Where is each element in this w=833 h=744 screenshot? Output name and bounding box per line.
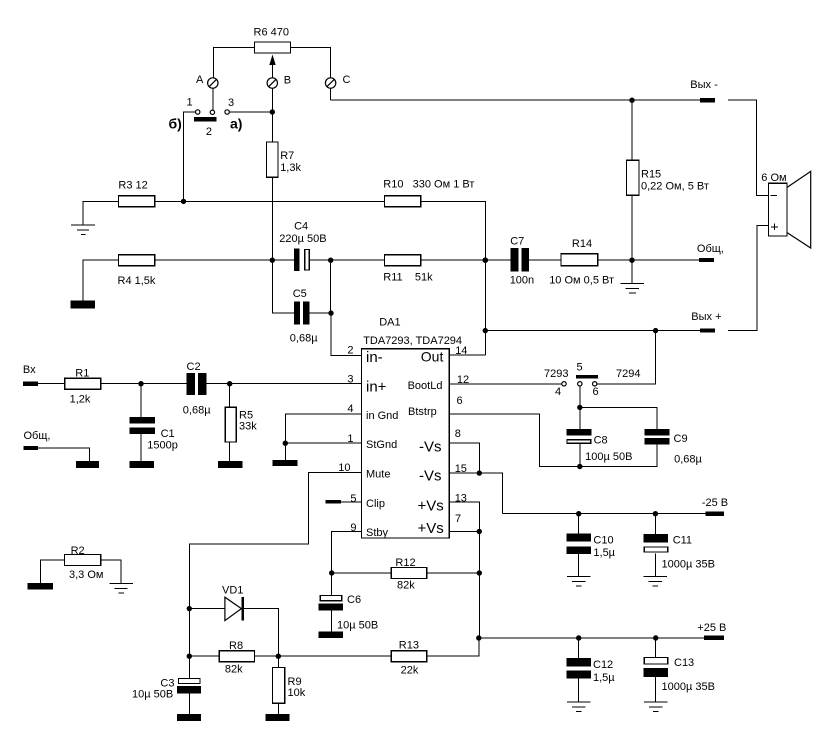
svg-text:0,68µ: 0,68µ: [290, 333, 318, 345]
node C11 top: [653, 511, 658, 516]
svg-text:Общ,: Общ,: [697, 243, 724, 255]
terminal Vyh+: [691, 311, 721, 333]
svg-text:C11: C11: [673, 535, 692, 547]
wire R12 right: [427, 572, 480, 574]
svg-text:in Gnd: in Gnd: [366, 410, 398, 422]
svg-text:R6 470: R6 470: [254, 27, 289, 39]
ground bar under R9: [266, 714, 290, 721]
svg-text:6: 6: [593, 386, 599, 398]
capacitor C9: [644, 429, 702, 465]
svg-text:0,68µ: 0,68µ: [183, 405, 211, 417]
node R8 left: [187, 654, 192, 659]
wire pin12 BootLd: [449, 383, 561, 385]
node C8 top: [577, 405, 582, 410]
svg-text:A: A: [196, 74, 204, 86]
svg-text:Stby: Stby: [366, 527, 389, 539]
svg-text:10µ 50В: 10µ 50В: [337, 619, 378, 631]
svg-text:R13: R13: [399, 640, 419, 652]
svg-text:R14: R14: [572, 238, 592, 250]
wire pin10 Mute: [189, 473, 361, 678]
wire R8 to R13: [255, 655, 392, 657]
svg-text:10: 10: [338, 462, 350, 474]
capacitor C6: [319, 573, 379, 631]
wire contact 3 to node under B: [229, 111, 272, 113]
ground earth under C13: [644, 702, 668, 712]
ground bar under R5: [218, 461, 242, 468]
diode VD1: [189, 585, 244, 621]
svg-text:-Vs: -Vs: [419, 468, 442, 485]
wire Vyh+ line: [485, 330, 700, 332]
wire pin7: [449, 531, 479, 533]
wire pin14 Out: [449, 354, 485, 356]
ground earth under R3: [71, 225, 95, 235]
wire Obsh to ground: [38, 448, 90, 461]
wire contact 1 down to R3 node: [184, 112, 196, 201]
node C8 bottom: [577, 464, 582, 469]
capacitor C10: [567, 514, 616, 577]
svg-text:+25 В: +25 В: [697, 622, 726, 634]
wire pin8: [449, 443, 479, 473]
resistor R10: [383, 179, 474, 207]
wire pin15: [449, 473, 502, 514]
label b): [169, 116, 182, 132]
wire R4 left lead: [83, 260, 118, 300]
wire pin3 row crossing none: [0, 0, 1, 1]
jumper contact 6: [593, 382, 599, 398]
svg-text:a): a): [230, 116, 242, 132]
op-amp IC DA1 TDA7293/TDA7294: [362, 317, 463, 538]
svg-text:Clip: Clip: [366, 498, 385, 510]
svg-text:0,22 Ом, 5 Вт: 0,22 Ом, 5 Вт: [641, 180, 709, 192]
capacitor C5: [290, 288, 318, 344]
wire C1 bottom lead: [140, 434, 142, 461]
resistor R2: [65, 545, 104, 581]
ground earth under C11: [644, 576, 668, 586]
svg-text:R11 51k: R11 51k: [383, 271, 433, 283]
wire terminal B down to R7: [271, 88, 273, 142]
node C2 R5: [227, 381, 232, 386]
wire +25V rail: [479, 637, 704, 639]
svg-text:C: C: [343, 74, 351, 86]
svg-text:7294: 7294: [616, 368, 640, 380]
wire R13 right up to +25V rail: [427, 638, 479, 656]
DA1 inner pin names right: [408, 348, 444, 537]
ground bar under Obsh: [76, 461, 99, 468]
svg-text:BootLd: BootLd: [408, 380, 443, 392]
wire C8 node to C9 top: [580, 407, 657, 429]
node pin4 pin1: [283, 441, 288, 446]
jumper contact 3: [225, 97, 234, 114]
svg-text:1,5µ: 1,5µ: [593, 672, 615, 684]
svg-text:22k: 22k: [401, 665, 419, 677]
resistor R13: [391, 640, 427, 677]
svg-text:R12: R12: [395, 557, 415, 569]
svg-text:R3 12: R3 12: [118, 179, 147, 191]
svg-text:R15: R15: [641, 169, 661, 181]
svg-text:in-: in-: [366, 349, 383, 366]
ground bar under R4: [71, 301, 95, 309]
svg-text:10k: 10k: [288, 687, 306, 699]
svg-text:C5: C5: [293, 288, 307, 300]
svg-text:6: 6: [457, 395, 463, 407]
svg-text:VD1: VD1: [222, 585, 243, 597]
svg-text:5: 5: [350, 493, 356, 505]
wire R10 right to output vertical: [421, 201, 486, 355]
jumper contact 1: [187, 96, 200, 114]
wire Vyh- to speaker minus: [728, 100, 769, 195]
wire -25V rail: [503, 513, 706, 515]
svg-text:Общ,: Общ,: [24, 430, 51, 442]
R6 wiper arrow: [269, 55, 275, 79]
terminal Vx input: [23, 364, 38, 386]
node output R11: [483, 258, 488, 263]
DA1 inner pin names left: [366, 349, 398, 539]
svg-text:C8: C8: [594, 435, 608, 447]
ground earth under R14 node: [621, 260, 645, 293]
wire VD1 cathode down to R8: [244, 609, 278, 657]
node pin8 pin15: [477, 470, 482, 475]
svg-text:82k: 82k: [397, 580, 415, 592]
svg-text:1000µ 35В: 1000µ 35В: [662, 558, 715, 570]
wire R8 left: [189, 655, 219, 657]
svg-text:Mute: Mute: [366, 469, 390, 481]
svg-text:R2: R2: [71, 545, 85, 557]
svg-text:2: 2: [206, 126, 212, 138]
terminal B: [267, 74, 291, 88]
wire R2 left to ground: [40, 560, 64, 583]
wire R12 row: [332, 572, 392, 574]
resistor R12: [391, 557, 427, 592]
svg-text:+Vs: +Vs: [418, 520, 444, 537]
svg-text:2: 2: [347, 344, 353, 356]
terminal -25V: [702, 497, 728, 516]
resistor R3: [118, 179, 154, 207]
svg-text:1000µ 35В: 1000µ 35В: [662, 681, 715, 693]
terminal A: [196, 74, 218, 88]
capacitor C2: [183, 361, 211, 417]
node C10 top: [576, 511, 581, 516]
svg-text:1500p: 1500p: [147, 440, 178, 452]
wire C8 bottom: [579, 444, 581, 467]
svg-text:100n: 100n: [510, 274, 534, 286]
node pin13 pin7: [477, 529, 482, 534]
wire R14 to Obsh terminal: [598, 259, 699, 261]
svg-text:C7: C7: [510, 236, 524, 248]
svg-text:220µ 50В: 220µ 50В: [279, 233, 326, 245]
resistor R5: [225, 407, 257, 442]
svg-text:1: 1: [187, 96, 193, 108]
svg-text:C13: C13: [674, 657, 694, 669]
ground earth under R2 right: [110, 584, 134, 594]
node C13 top: [653, 635, 658, 640]
wire Vx to R1: [38, 383, 65, 385]
wire R3 to R10: [155, 200, 385, 202]
svg-text:4: 4: [555, 386, 561, 398]
node +25V R13: [476, 635, 481, 640]
node C4 right: [328, 258, 333, 263]
svg-text:10 Ом 0,5 Вт: 10 Ом 0,5 Вт: [549, 274, 614, 286]
wire terminal A to contact 2: [212, 88, 214, 110]
wire R5 bottom lead: [229, 442, 231, 461]
terminal Obsh right: [697, 243, 724, 262]
wire R6 right lead to terminal C: [291, 48, 331, 101]
terminal Obsh left: [24, 430, 51, 450]
wire pin7 down to +25V rail: [478, 532, 480, 639]
svg-text:8: 8: [455, 428, 461, 440]
node VD1 anode: [187, 606, 192, 611]
svg-text:Btstrp: Btstrp: [408, 406, 437, 418]
node out R11 crossing: [483, 258, 488, 263]
jumper contact 5: [577, 362, 583, 386]
node R14 R15: [629, 258, 634, 263]
svg-text:4: 4: [347, 403, 353, 415]
svg-text:TDA7293, TDA7294: TDA7293, TDA7294: [363, 335, 462, 347]
wire R1 to C2: [101, 383, 187, 385]
svg-text:C6: C6: [347, 594, 361, 606]
DA1 pin numbers left: [338, 344, 356, 534]
svg-text:C3: C3: [160, 677, 174, 689]
svg-text:1,3k: 1,3k: [280, 162, 301, 174]
svg-text:Вх: Вх: [23, 364, 36, 376]
svg-text:R10 330 Ом 1 Вт: R10 330 Ом 1 Вт: [383, 179, 474, 191]
svg-text:3: 3: [228, 97, 234, 109]
svg-text:7293: 7293: [544, 368, 568, 380]
resistor R9: [273, 656, 306, 714]
svg-text:C12: C12: [593, 659, 613, 671]
capacitor C13: [644, 638, 715, 702]
wire R5 top lead: [229, 384, 231, 408]
ground bar under C1: [130, 461, 155, 468]
node under B: [270, 109, 275, 114]
svg-text:7: 7: [455, 513, 461, 525]
svg-text:1,5µ: 1,5µ: [593, 547, 615, 559]
node R1 C1: [138, 381, 143, 386]
ground bar under C3: [177, 714, 201, 721]
svg-text:100µ 50B: 100µ 50B: [585, 451, 632, 463]
node Vyh+ jumper: [653, 328, 658, 333]
wire R15 top lead: [631, 100, 633, 160]
label a): [230, 116, 242, 132]
resistor R1: [65, 368, 101, 406]
node C12 top: [576, 635, 581, 640]
potentiometer R6: [254, 27, 291, 54]
svg-text:9: 9: [350, 522, 356, 534]
svg-text:82k: 82k: [225, 663, 243, 675]
svg-text:in+: in+: [366, 379, 387, 396]
svg-text:C9: C9: [674, 433, 688, 445]
svg-text:-25 В: -25 В: [702, 497, 728, 509]
svg-text:-Vs: -Vs: [419, 439, 442, 456]
wire pin6 Btstrp: [449, 414, 656, 467]
wire pin2: [331, 313, 362, 355]
resistor R7: [267, 142, 302, 177]
wire contact 6 up to Vyh+: [597, 331, 656, 384]
terminal C: [325, 74, 350, 88]
ground bar under C6: [319, 631, 343, 638]
resistor R14: [549, 238, 614, 286]
wire C5 to pin2 node: [309, 312, 331, 314]
node R8 R9: [276, 654, 281, 659]
loudspeaker 6 Ohm: [761, 171, 810, 248]
wire C7 to R14: [529, 259, 561, 261]
svg-text:R1: R1: [75, 368, 89, 380]
ground earth under C10: [567, 576, 591, 586]
jumper bar 5-6 closed: [576, 375, 598, 378]
terminal Vyh-: [690, 79, 718, 102]
wire C4 right node down to C5: [330, 260, 332, 313]
terminal +25V: [697, 622, 726, 640]
svg-text:Out: Out: [421, 348, 444, 364]
wire R2 right to ground: [101, 560, 121, 584]
wire R15 bottom lead: [631, 195, 633, 260]
node Vyh+ out: [483, 328, 488, 333]
wire C4 to R11: [310, 259, 385, 261]
jumper contact 4: [555, 382, 566, 398]
wire R4 to C4: [155, 259, 294, 261]
node R3 feedback: [181, 199, 186, 204]
wire pin13: [449, 502, 479, 532]
wire contact 5 down: [579, 386, 581, 429]
svg-text:R8: R8: [229, 640, 243, 652]
wire C2 to pin3: [207, 383, 362, 385]
wire R6 left lead to terminal A: [214, 48, 255, 79]
wire pin5 Clip stub: [325, 500, 361, 504]
label 7293: [544, 368, 568, 380]
svg-text:1,2k: 1,2k: [70, 394, 91, 406]
svg-text:12: 12: [457, 374, 469, 386]
svg-text:10µ 50В: 10µ 50В: [132, 689, 173, 701]
node R12 right: [477, 570, 482, 575]
resistor R8: [219, 640, 254, 675]
ground bar under R2 left: [28, 583, 53, 590]
svg-text:б): б): [169, 116, 182, 132]
DA1 pin numbers right: [455, 345, 469, 525]
wire R3 left lead with ground: [83, 201, 118, 225]
node R7 C4: [270, 258, 275, 263]
capacitor C12: [567, 638, 616, 702]
wire pin1: [285, 442, 361, 444]
svg-text:C2: C2: [187, 361, 201, 373]
svg-text:R7: R7: [280, 150, 294, 162]
capacitor C3: [132, 677, 201, 714]
label 7294: [616, 368, 640, 380]
wire Vyh- line: [331, 99, 700, 101]
capacitor C8: [566, 429, 632, 463]
capacitor C7: [510, 236, 534, 287]
wire R7 bottom to C4 node: [271, 177, 273, 260]
node Vyh- R15: [629, 98, 634, 103]
svg-text:3,3 Ом: 3,3 Ом: [69, 569, 103, 581]
svg-text:13: 13: [455, 493, 467, 505]
svg-text:Вых +: Вых +: [691, 311, 721, 323]
svg-text:33k: 33k: [239, 420, 257, 432]
svg-text:StGnd: StGnd: [366, 439, 397, 451]
capacitor C11: [644, 514, 715, 577]
svg-text:0,68µ: 0,68µ: [674, 453, 702, 465]
wire C4 node down to C5 row left: [272, 260, 294, 313]
node Stby C6: [329, 570, 334, 575]
wire pin4: [285, 414, 361, 460]
svg-text:C4: C4: [294, 221, 308, 233]
svg-text:5: 5: [577, 362, 583, 374]
wire C1 top lead: [140, 384, 142, 417]
node C5 pin2: [328, 310, 333, 315]
jumper contact 2: [206, 110, 215, 138]
resistor R11: [383, 255, 433, 284]
capacitor C4: [279, 221, 326, 271]
capacitor C1: [130, 417, 178, 452]
resistor R15: [626, 160, 708, 195]
svg-text:C10: C10: [593, 535, 613, 547]
ground bar under pin1: [272, 460, 297, 466]
svg-text:6 Ом: 6 Ом: [761, 172, 786, 184]
svg-text:R4 1,5k: R4 1,5k: [118, 275, 156, 287]
wire pin9 Stby: [332, 531, 362, 573]
ground earth under C12: [567, 702, 591, 712]
wire speaker plus to Vyh+: [728, 226, 769, 331]
svg-text:DA1: DA1: [379, 317, 400, 329]
svg-text:Вых -: Вых -: [690, 79, 718, 91]
svg-text:+Vs: +Vs: [418, 498, 444, 515]
wire R11 to C7: [421, 259, 511, 261]
jumper bar 1-2 closed: [194, 117, 217, 121]
svg-text:C1: C1: [161, 428, 175, 440]
svg-text:R9: R9: [288, 676, 302, 688]
svg-text:B: B: [284, 74, 291, 86]
resistor R4: [118, 255, 156, 287]
